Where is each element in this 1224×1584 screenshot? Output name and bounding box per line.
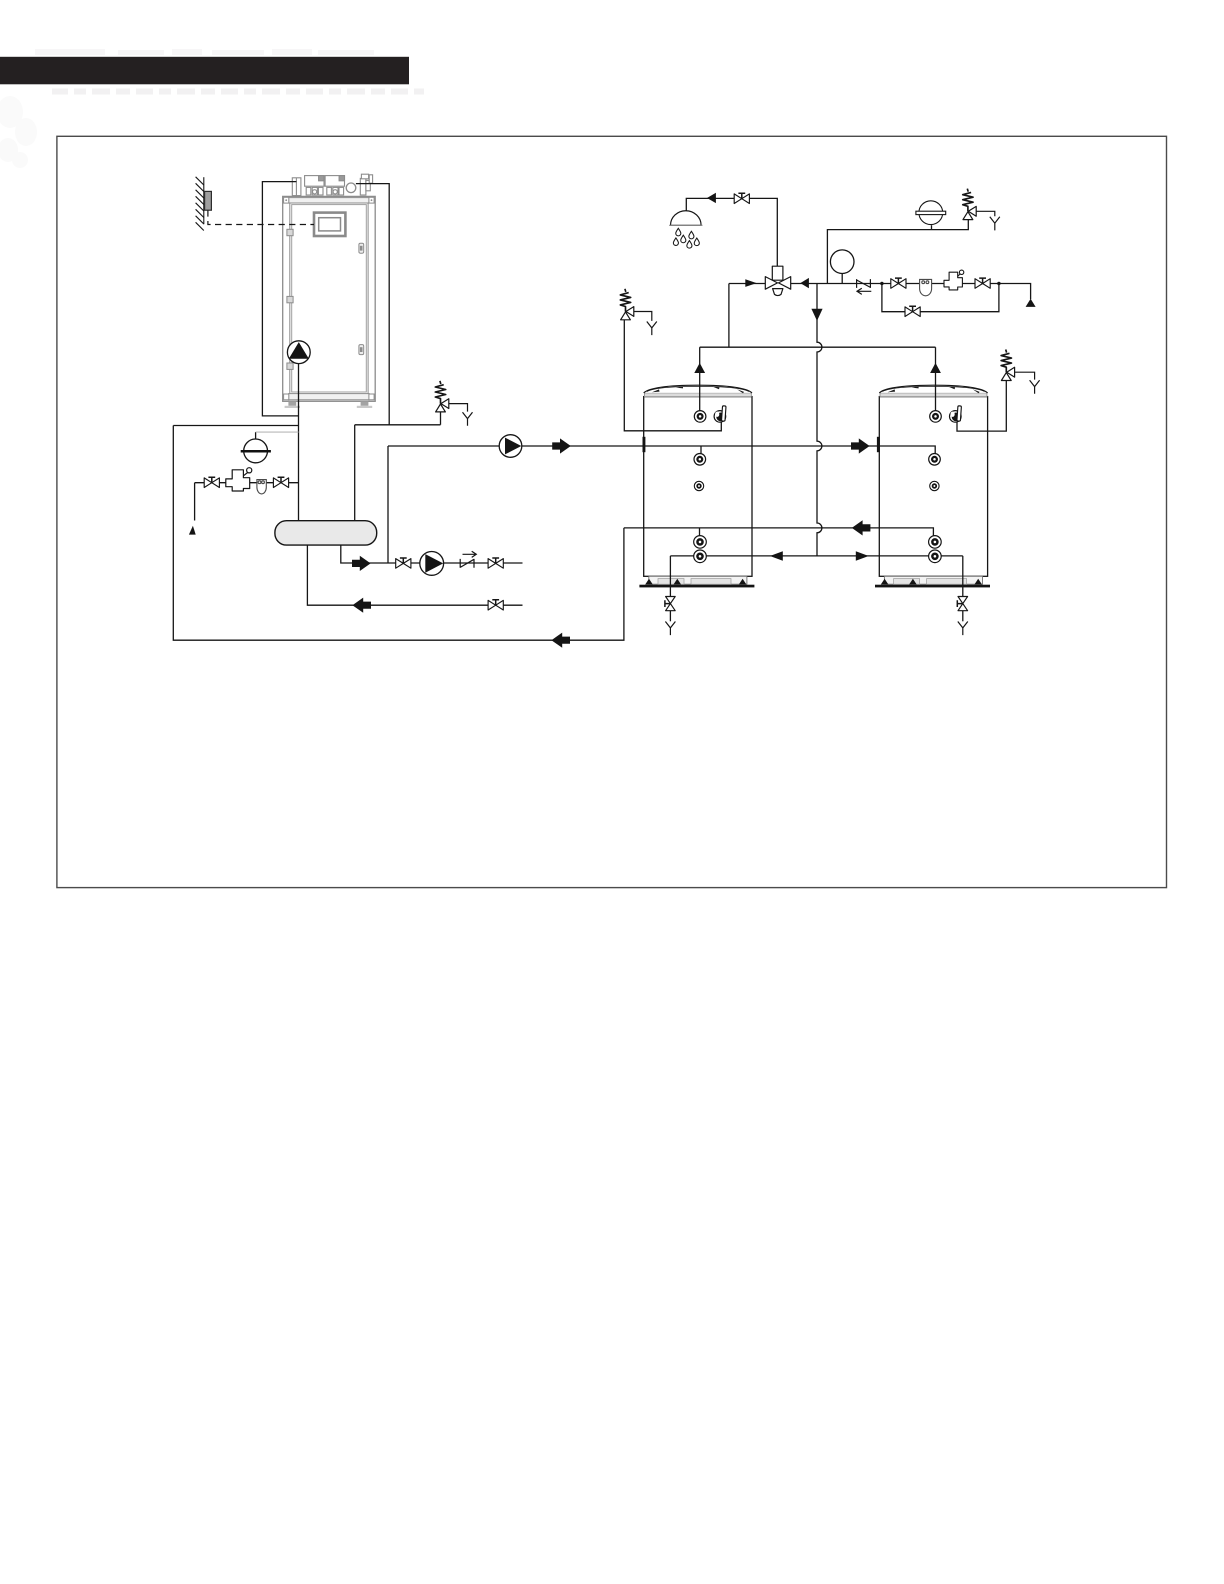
tank 1 drain valve (665, 597, 675, 611)
tank 2 hot outlet arrow (930, 363, 941, 373)
pipe: tank 1 flow stub (700, 446, 702, 454)
cabinet side frame strips (289, 203, 291, 394)
tank 2 inlet flange (877, 437, 880, 452)
return arrow from tank 2 (852, 520, 871, 535)
tank 2 safety valve funnel (1030, 380, 1040, 394)
door latches right (359, 243, 364, 253)
pipe: boiler return header to safety valve stub (355, 412, 441, 425)
tank 1 skirt and feet (649, 576, 747, 584)
gray link from expansion vessel to pump line (256, 431, 299, 433)
tank 2 drain valve (957, 597, 967, 611)
filling loop valve 2 (273, 477, 288, 487)
boiler safety valve (435, 381, 449, 412)
cold main isolating valve 1 (891, 278, 906, 288)
tank 1 inlet flange (643, 437, 646, 452)
pipe: DHW cold riser down between tanks (817, 284, 822, 556)
pipe: tank 2 safety valve line (957, 380, 1006, 431)
cold distribution arrow to tank 1 (770, 551, 783, 561)
pipe: boiler return riser right of cabinet (356, 184, 389, 425)
room sensor on wall (205, 191, 212, 210)
pipe: mixed water main to cold inlet (791, 284, 1031, 300)
pipe: boiler flow loop left (262, 182, 298, 416)
shower droplets (676, 228, 681, 236)
DHW check valve (857, 279, 872, 294)
pipe: flow riser from junction (387, 446, 389, 563)
faint watermark blobs at left page edge (0, 96, 37, 168)
boiler top equipment: burner unit A (305, 176, 324, 187)
pipe: boiler circuit left boundary and bottom return (173, 426, 624, 641)
tank 1 hot outlet arrow (694, 363, 705, 373)
tank 2 drain funnel (958, 622, 968, 636)
faint ghost marks above title bar (35, 49, 374, 55)
junction dot left (880, 282, 883, 285)
boiler top equipment: right-hand fittings (360, 178, 366, 195)
DHW pressure gauge (830, 250, 854, 274)
pipe: mixing valve left connection (729, 283, 765, 285)
tank 2 ground line (875, 585, 990, 588)
DHW expansion vessel (916, 201, 946, 225)
mains inlet triangle right (1026, 299, 1036, 307)
boiler expansion vessel (241, 439, 271, 463)
tank 1 dome (644, 385, 752, 393)
pipe: return line from tanks with crossover hop (624, 528, 934, 537)
mixing valve cold inlet arrow (800, 278, 809, 288)
heating flow arrow out of header (352, 556, 371, 571)
boiler top equipment: burner unit B (325, 176, 344, 187)
tank 1 body (644, 397, 752, 577)
diagram outer frame box (57, 136, 1167, 887)
filling loop pressure reducer (226, 468, 252, 491)
bypass valve (905, 306, 920, 316)
tank 2 skirt and feet (884, 576, 982, 584)
tank 2 dome weld marks (888, 386, 980, 393)
cold distribution arrow to tank 2 (856, 551, 869, 561)
boiler safety valve funnel (463, 412, 473, 426)
cold riser down arrow (811, 309, 822, 321)
pipe: boiler pump discharge down to header (298, 364, 300, 521)
cold main pressure reducer (944, 270, 964, 290)
filling loop filter (257, 480, 266, 494)
pipe: heating-loop return row from header (307, 545, 522, 605)
filling loop inlet stub with mains triangle (189, 526, 196, 535)
junction dot right (997, 282, 1000, 285)
tank 2 ports (930, 411, 942, 423)
pipe: mixing valve hot tap riser (728, 284, 730, 348)
pipe: tank 1 hot outlet up (699, 347, 701, 411)
shower head (669, 211, 702, 226)
cabinet door panel (292, 205, 367, 392)
pipe: tank 2 hot outlet up (935, 347, 937, 411)
black title bar (0, 57, 409, 85)
boiler top equipment: flue stub (292, 178, 301, 196)
shower isolating valve (734, 193, 749, 203)
pipe: shower branch (686, 198, 777, 266)
faint ghost text row under title bar (52, 89, 424, 95)
pipe: tank 1 drain below valve (669, 611, 671, 622)
tank 1 safety valve (620, 289, 634, 320)
primary pump to tanks (499, 435, 522, 458)
pipe: boiler expansion vessel stem (255, 432, 257, 439)
heating circuit isolating valve 2 (488, 558, 503, 568)
pipe: primary flow line to tanks with crossover hop (388, 446, 935, 454)
boiler circulating pump (287, 341, 310, 364)
pipe: DHW pressure gauge stem (841, 274, 843, 284)
shower outlet arrow (707, 193, 716, 203)
return arrow to boiler on bottom line (551, 633, 570, 648)
pipe: cold distribution between tank bottoms (670, 555, 962, 557)
tank 1 thermometer pocket (714, 406, 726, 422)
DHW safety valve funnel (990, 217, 1000, 231)
tank 2 collar band (880, 393, 987, 397)
pipe: filling row (195, 483, 299, 521)
wall hatching (196, 177, 204, 231)
heating circuit check valve (460, 551, 476, 568)
tank 2 dome (879, 385, 987, 393)
cabinet bottom band (289, 394, 370, 400)
pipe: tank 2 drain drop (962, 556, 964, 596)
cabinet body (283, 196, 376, 408)
tank 1 collar band (644, 393, 751, 397)
tank 1 ground line (639, 585, 754, 588)
pipe: expansion vessel branch top right (827, 220, 968, 284)
tank 2 thermometer pocket (950, 406, 962, 422)
mixing valve inlet arrow (745, 279, 756, 287)
tank 2 safety valve outlet elbow (1015, 372, 1035, 379)
DHW safety valve outlet elbow (976, 211, 995, 216)
pipe: tank 1 return stub (699, 528, 701, 536)
pipe: heating-loop flow row from header (341, 545, 523, 563)
boiler top equipment: round expansion pot (346, 183, 356, 193)
heating return arrow into header (352, 598, 371, 613)
DHW safety valve top right (963, 189, 977, 220)
tank 1 safety valve outlet elbow (634, 312, 652, 321)
pipe: DHW expansion vessel stem (931, 225, 933, 229)
pipe: tank 1 drain drop (669, 556, 671, 596)
door hinges left (287, 229, 293, 235)
cabinet feet (288, 401, 296, 405)
pipe: expansion vessel branch left (173, 425, 298, 427)
flow arrow into tank 2 (851, 438, 870, 453)
filling loop valve 1 (204, 477, 219, 487)
tank 2 safety valve (1001, 350, 1015, 381)
cold main isolating valve 2 (975, 278, 990, 288)
tank 1 safety valve funnel (647, 322, 657, 336)
boiler safety valve outlet elbow (449, 404, 468, 412)
tank 1 dome weld marks (652, 386, 744, 393)
tank 2 body (879, 397, 987, 577)
heating circuit pump (420, 552, 444, 576)
thermostatic mixing valve (765, 266, 790, 295)
pipe: cold water bypass loop (882, 284, 999, 312)
flow arrow after primary pump (552, 438, 571, 453)
control dashed link to boiler panel (208, 210, 314, 224)
heating circuit isolating valve 1 (396, 558, 411, 568)
heating return isolating valve (488, 600, 503, 610)
cold main filter (920, 279, 932, 295)
tank 1 drain funnel (665, 622, 675, 636)
pipe: hot collector line above tanks with hop (700, 346, 936, 348)
pipe: tank 1 safety valve line (624, 320, 721, 431)
low-loss header capsule (275, 521, 377, 545)
pipe: header down into low-loss header (354, 425, 356, 521)
cabinet top band (289, 198, 370, 203)
tank 1 ports (694, 411, 706, 423)
control panel (314, 213, 345, 236)
pipe: tank 2 drain below valve (962, 611, 964, 622)
